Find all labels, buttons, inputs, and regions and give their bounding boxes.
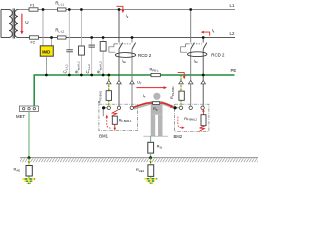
node R_Isol-L1/PE [80,74,83,77]
svg-text:MET: MET [16,114,25,119]
IMD U1 [40,46,53,56]
svg-text:F2: F2 [31,40,35,44]
RCD 2 toroid CT [188,52,207,57]
node R_St earth [149,156,152,159]
node PE/BM1 [107,74,110,77]
RCD 2 trip coil bracket [181,44,189,52]
node BM1 body [102,106,105,109]
MET terminal block [16,106,39,119]
node L2 fault tap RCD2 [202,36,205,39]
RCD 1 wire from L2 [131,38,133,43]
wire to R_AE (green/yellow) [28,158,30,166]
node R_Isol-L1/L1 [80,8,83,11]
wire R_St to earth [150,153,152,158]
wire R_PE-BM1 to terminal [108,100,110,106]
fault zigzag BM2 [199,126,205,131]
BM1 terminal PE [107,106,110,109]
wire IMD to PE [45,56,47,75]
current arrow into R_PE-BM2 [178,73,186,80]
wire MET to earth [28,112,30,158]
fuse F1 [29,4,38,12]
arrowhead body path [170,105,174,108]
floor line under feet [143,135,167,137]
resistor R_L-L2 [55,28,66,40]
resistor R_PE-L [150,67,161,77]
current direction chevrons [107,80,206,84]
wire IMD tap from L2 [51,38,53,46]
body current path I_T (red) [133,103,172,108]
RCD 2 wire L1 down [190,49,192,106]
node R_Isol-L2/L2 [102,36,105,39]
wire PE [34,75,234,106]
BM2 terminal PE [179,106,182,109]
wire R_Isol-L1 branch [80,10,82,76]
svg-text:U: U [25,20,28,25]
wire R_PE-BM1 branch (green/yellow) [108,75,110,91]
BM2 terminal L1 [189,106,192,109]
node C_L-L1/L1 [68,8,71,11]
wire R_PE-BM2 branch (green/yellow) [180,75,182,91]
fault current arrow I_k left [116,6,129,19]
resistor R_K [153,102,160,105]
node IMD/PE [45,74,48,77]
svg-text:RCD 2: RCD 2 [211,53,225,58]
node L2/IMD [50,36,53,39]
RCD 1 wire L2 down [131,49,133,106]
wire C_L-L2 branch [91,38,93,46]
node L1 fault tap [118,8,121,11]
BM1 terminal L2 [130,106,133,109]
touch voltage arrow U_B2 (red dashed) [178,117,182,128]
wire to R_AE1 (green/yellow) [150,158,152,165]
node C_L-L2/PE [90,74,93,77]
RCD 2 wire L2 down [202,49,204,106]
RCD 2 right: wire from L1 [190,10,192,43]
ground earth symbol middle [144,176,157,183]
wire R_Isol-L2 branch [102,38,104,76]
svg-text:L1: L1 [230,3,235,8]
svg-text:PE: PE [231,68,237,73]
svg-text:BM2: BM2 [174,134,183,139]
svg-text:F1: F1 [30,4,34,8]
fault current arrow I_k right [201,27,215,35]
RCD 2 trip linkage [188,43,202,45]
RCD 1 switch blade L2 [132,43,136,49]
wire C_L-L1 branch [68,10,70,50]
node R_Isol-L2/PE [102,74,105,77]
capacitor C_L-L2 [89,45,96,47]
node C_L-L1/PE [68,74,71,77]
BM2 body connection stub [175,107,179,109]
resistor R_PE-BM2 [179,91,184,100]
BM1 body connection stub [104,107,108,109]
node BM2 body [174,106,177,109]
node C_L-L2/L2 [90,36,93,39]
human body figure [133,93,176,136]
wire IMD tap from L1 [42,10,44,46]
current arrow down BM1 [114,124,116,128]
RCD 2 wire from L2 [202,38,204,43]
RCD 1 toroid CT [115,53,135,58]
svg-text:IMD: IMD [42,50,50,55]
resistor R_F-BM/L1 [112,116,117,124]
resistor R_F-BM/L2 [201,115,206,126]
BM1 dash-dot box [99,104,137,131]
node RCD2/PE fault junction [202,74,205,77]
wire body to R_St [150,136,152,142]
resistor R_Isol-L1 [79,46,85,55]
RCD 1 wire L1 down [118,49,120,106]
fuse F2 [30,36,39,45]
BM2 terminal L2 [201,106,204,109]
voltage arrow U [20,14,28,35]
wire L2 [18,37,235,39]
ground earth symbol left [22,176,35,183]
resistor R_AE [14,166,33,177]
RCD 2 switch blade L2 [203,43,207,49]
wire R_PE-BM2 to terminal [180,100,182,106]
wire L1 [18,9,236,11]
RCD 1 left: wire from L1 [118,10,120,43]
touch voltage arrow U_T [136,80,167,90]
node MET earth [28,156,31,159]
capacitor C_L-L1 [66,50,73,52]
node L2 tap RCD1 [131,36,134,39]
svg-text:L2: L2 [230,31,235,36]
BM2 dash-dot box [175,104,209,131]
current arrow up BM2 [202,111,204,115]
RCD 2 switch blade L1 [191,43,195,49]
resistor R_St [148,142,154,153]
RCD 1 switch blade L1 [119,43,123,49]
svg-text:RCD 2: RCD 2 [138,53,152,58]
resistor R_AE1 [136,165,154,177]
RCD 1 trip coil bracket [109,44,117,52]
node L1/IMD [42,8,45,11]
RCD 1 trip linkage [117,43,131,45]
BM1 terminal L1 [117,106,120,109]
transformer T1 [1,9,18,39]
fault zigzag BM1 [112,110,118,116]
resistor R_Isol-L2 [100,42,106,52]
resistor R_L-L1 [55,1,66,12]
svg-text:BM1: BM1 [99,134,108,139]
node L1 tap RCD2 [189,8,192,11]
resistor R_PE-BM1 [106,91,111,101]
touch voltage arrow U_B1 (red dashed) [107,117,111,128]
